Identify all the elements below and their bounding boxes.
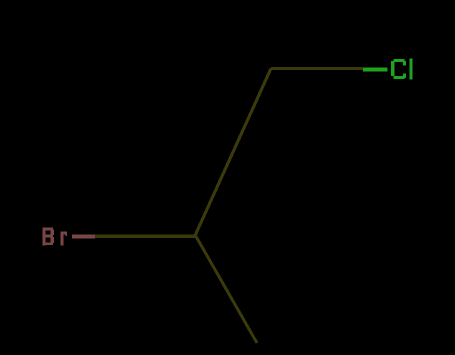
atom label Cl (pixel-art C) — [391, 59, 406, 79]
bond C3-Cl (chlorine-colored stub) — [363, 68, 388, 72]
bond Br-C1 (bromine-colored stub) — [72, 235, 95, 239]
atom label Br (pixel-art B) — [42, 227, 53, 245]
bond C1-C5 (diagonal down-right) — [194, 234, 259, 344]
bond C1-C3 (long diagonal up-right) — [194, 68, 273, 237]
atom label Cl (pixel-art l) — [410, 59, 413, 80]
atom label Br (pixel-art r) — [60, 232, 67, 246]
bond Br-C1 (carbon half, dark olive) — [93, 235, 195, 238]
bond C3-Cl (carbon half, dark olive) — [271, 67, 363, 70]
